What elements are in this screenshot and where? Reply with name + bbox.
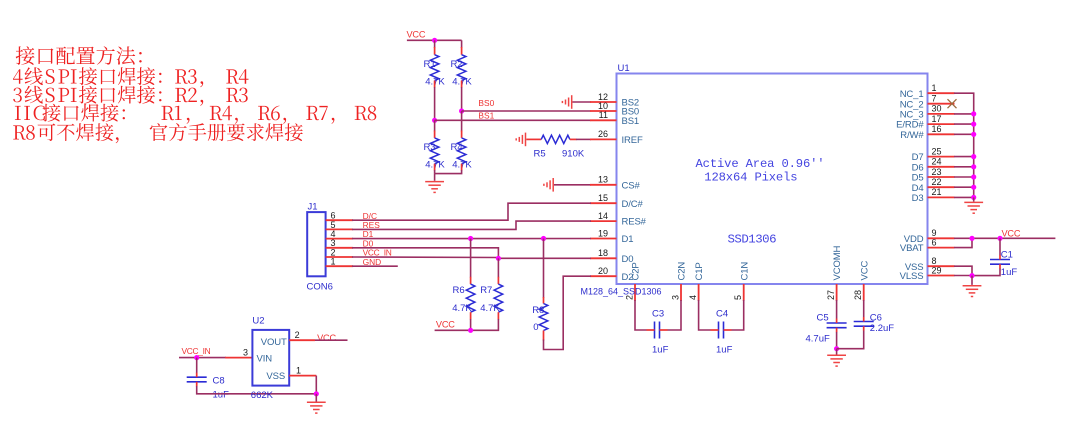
pin R3.1 [434, 131, 436, 138]
resistor R3 [430, 138, 439, 164]
U1 internal text SSD1306 [728, 233, 777, 247]
U1 pin 24 (D6) stub [928, 166, 955, 168]
net label VCC_IN (left) [182, 346, 211, 356]
no-connect X on U1 pin 7 [948, 99, 957, 108]
pin R2.2 [461, 81, 463, 88]
ground (VSS/VLSS) [963, 276, 982, 297]
wire U1.8 VSS down [954, 266, 972, 275]
junction D1/R6 [468, 236, 473, 241]
svg-text:20: 20 [598, 266, 608, 276]
svg-text:SSD1306: SSD1306 [728, 233, 777, 247]
U1 pin 9 (VDD) stub [928, 237, 955, 239]
U1 pin 5 (C1N) stub [743, 284, 745, 301]
wire R5 to pin 26 [576, 138, 591, 140]
U1 pin name NC_1 [900, 89, 924, 100]
U1 pin name RES# [622, 217, 647, 228]
U1 internal text Active Area 0.96'' [696, 157, 825, 171]
U1 pin 27 (VCOMH) stub [836, 284, 838, 301]
svg-text:24: 24 [932, 157, 942, 167]
J1 pin 6 number [331, 211, 336, 221]
junction bus/E/RD# [971, 122, 976, 127]
wire net VCC from U1.9 [954, 237, 1055, 239]
svg-text:15: 15 [598, 193, 608, 203]
svg-text:CS#: CS# [622, 180, 641, 191]
capacitor C8 value label 1uF [213, 390, 230, 401]
wire C1 bottom to gnd node [972, 269, 1000, 276]
wire net VCC_IN to U2.VIN [179, 357, 226, 359]
ground (R5 left) [516, 133, 525, 147]
svg-text:1: 1 [331, 257, 336, 267]
svg-text:1uF: 1uF [1001, 267, 1018, 278]
net label D0 [363, 238, 374, 248]
U1 pin 18 number [598, 248, 608, 258]
capacitor C5 ref label [817, 313, 829, 324]
svg-text:U2: U2 [252, 315, 264, 326]
wire pin NC_3 to bus [954, 113, 974, 115]
svg-text:2: 2 [295, 330, 300, 340]
annotation text line 4 IIC接口焊接：R1，R4，R6，R7，R8 [15, 104, 376, 124]
svg-text:7: 7 [932, 94, 937, 104]
U1 pin 8 (VSS) stub [928, 265, 955, 267]
U1 pin name D6 [912, 162, 924, 173]
capacitor C6 ref label [870, 313, 882, 324]
U1 pin name D7 [912, 152, 924, 163]
U1 pin name D2 [622, 272, 634, 283]
U1 pin 26 number [598, 129, 608, 139]
wire net GND from J1.1 [352, 265, 398, 267]
J1 pin 4 stub [326, 238, 354, 240]
wire D1 node to R8 [543, 239, 545, 298]
svg-text:17: 17 [932, 114, 942, 124]
J1 pin 5 number [331, 220, 336, 230]
U1 pin name BS1 [622, 116, 640, 127]
svg-text:26: 26 [598, 129, 608, 139]
wire C3 to U1.3 [668, 300, 682, 330]
svg-text:VCOMH: VCOMH [832, 245, 843, 280]
svg-text:Active Area 0.96'': Active Area 0.96'' [696, 157, 825, 171]
U1 pin name VCOMH [832, 245, 843, 280]
U1 pin 25 (D7) stub [928, 156, 955, 158]
svg-text:BS1: BS1 [622, 116, 640, 127]
wire node BS0 to R4 [461, 111, 463, 132]
U1 pin 14 (RES#) stub [590, 220, 617, 222]
U1 pin name R/W# [900, 130, 924, 141]
svg-text:CON6: CON6 [307, 281, 333, 292]
J1 pin 6 stub [326, 219, 354, 221]
pin R3.2 [434, 164, 436, 171]
connector J1 box [307, 212, 325, 276]
wire R6 to VCC rail [470, 319, 472, 330]
capacitor C4 value label 1uF [716, 344, 733, 355]
resistor R7 value label 4.7K [480, 303, 500, 314]
pin R8.2 [543, 331, 545, 341]
capacitor C6 [854, 317, 874, 331]
wire U1.4 to C4 [699, 300, 711, 330]
resistor R3 value label 4.7K [425, 160, 445, 171]
net label VCC_IN [363, 248, 392, 258]
J1 pin 2 stub [326, 256, 354, 258]
U1 pin name NC_3 [900, 110, 924, 121]
net label D1 [363, 229, 374, 239]
svg-text:D3: D3 [912, 193, 924, 204]
J1 part label CON6 [307, 281, 333, 292]
wire VCC to R1 [434, 40, 436, 48]
J1 reference designator [308, 201, 318, 212]
svg-text:4.7uF: 4.7uF [806, 334, 830, 345]
svg-text:18: 18 [598, 248, 608, 258]
U1 pin 26 (IREF) stub [590, 138, 617, 140]
resistor R5 [541, 135, 570, 143]
pin R5.1 [526, 138, 541, 140]
U1 pin 24 number [932, 157, 942, 167]
svg-text:16: 16 [932, 124, 942, 134]
junction VCC/C1 [997, 236, 1002, 241]
J1 pin 3 number [331, 238, 336, 248]
U2 pin name VSS [266, 371, 285, 382]
net label RES [363, 220, 381, 230]
svg-text:0: 0 [533, 322, 538, 333]
wire R3 to gnd rail [434, 170, 436, 174]
J1 pin 5 stub [326, 228, 354, 230]
svg-text:GND: GND [363, 257, 382, 267]
svg-text:C8: C8 [213, 375, 225, 386]
U1 pin 13 (CS#) stub [590, 184, 617, 186]
U1 pin 22 (D4) stub [928, 186, 955, 188]
ground (pin CS#) [544, 178, 553, 192]
U1 pin name VBAT [900, 243, 924, 254]
svg-text:R5: R5 [534, 149, 546, 160]
U1 pin name IREF [622, 135, 643, 146]
capacitor C3 [647, 322, 668, 339]
wire U1.28 to C6 [863, 300, 865, 317]
pin R4.1 [461, 131, 463, 138]
pin R8.1 [543, 297, 545, 304]
svg-text:R2: R2 [451, 59, 463, 70]
wire pin D7 to bus [954, 156, 974, 158]
wire C8 bottom to gnd rail [197, 386, 317, 394]
svg-text:R6: R6 [453, 285, 465, 296]
junction VCC_IN/C8 [194, 355, 199, 360]
svg-text:VSS: VSS [266, 371, 285, 382]
op-amp U1 box (SSD1306 module body) [617, 74, 928, 285]
svg-text:2.2uF: 2.2uF [870, 323, 894, 334]
svg-text:VCC: VCC [859, 261, 870, 281]
svg-text:VCC: VCC [317, 333, 336, 343]
wire net D/C from J1.6 to U1.15 [352, 203, 591, 220]
pin R4.2 [461, 164, 463, 171]
U2 pin name VOUT [261, 337, 287, 348]
U1 pin 7 (NC_2) stub [928, 103, 955, 105]
voltage regulator U2 box [252, 330, 289, 386]
capacitor C8 [187, 373, 207, 387]
U1 pin 21 number [932, 187, 942, 197]
svg-text:VBAT: VBAT [900, 243, 924, 254]
resistor R5 value label 910K [562, 149, 585, 160]
junction node BS1 [432, 118, 437, 123]
resistor R6 ref label R6 [453, 285, 465, 296]
wire C6 to gnd node [837, 331, 864, 349]
U2 pin 1 number [296, 365, 301, 375]
svg-text:1: 1 [296, 365, 301, 375]
resistor R7 [494, 284, 503, 312]
wire node BS1 to R3 [434, 120, 436, 131]
svg-text:28: 28 [853, 290, 863, 300]
net label D/C [363, 211, 377, 221]
U1 pin 2 (C2P) stub [634, 284, 636, 301]
U1 reference designator [618, 63, 630, 74]
svg-text:BS0: BS0 [478, 98, 494, 108]
U1 pin name E/RD# [896, 120, 924, 131]
junction node BS0 [459, 108, 464, 113]
pin R7.1 [497, 277, 499, 284]
wire C8 top [196, 358, 198, 374]
U1 pin name D5 [912, 173, 924, 184]
svg-text:C2N: C2N [677, 262, 688, 281]
junction bus/D6 [971, 164, 976, 169]
svg-text:VCC: VCC [1002, 229, 1021, 239]
wire D0 node to R7 [497, 258, 499, 277]
wire R7 to VCC rail [435, 319, 499, 330]
svg-text:5: 5 [733, 295, 743, 300]
U1 pin 13 number [598, 175, 608, 185]
U1 pin 6 (VBAT) stub [928, 247, 955, 249]
U1 pin 15 number [598, 193, 608, 203]
wire R8 to net D2 [544, 276, 592, 349]
svg-text:30: 30 [932, 104, 942, 114]
ground (C5/C6) [827, 349, 846, 366]
svg-text:M128_64_SSD1306: M128_64_SSD1306 [581, 287, 662, 297]
svg-text:29: 29 [932, 265, 942, 275]
net label BS1 [478, 111, 494, 121]
U1 pin 1 (NC_1) stub [928, 92, 955, 94]
pin R1.1 [434, 47, 436, 55]
resistor R4 [457, 138, 466, 164]
U1 pin 16 (R/W#) stub [928, 133, 955, 135]
pin R6.2 [470, 312, 472, 319]
junction bus/D4 [971, 185, 976, 190]
U1 pin 27 number [826, 290, 836, 300]
svg-text:J1: J1 [308, 201, 318, 212]
svg-text:R7: R7 [480, 285, 492, 296]
capacitor C5 value label 4.7uF [806, 334, 830, 345]
ground (below R3/R4) [425, 174, 444, 193]
svg-text:D/C#: D/C# [622, 199, 644, 210]
svg-text:BS1: BS1 [478, 111, 494, 121]
svg-text:1uF: 1uF [213, 390, 230, 401]
capacitor C4 ref label [716, 308, 728, 319]
svg-text:11: 11 [599, 110, 608, 120]
J1 pin 4 number [331, 229, 336, 239]
net label VCC (U2 output) [317, 333, 336, 343]
resistor R8 value label 0 [533, 322, 538, 333]
U1 pin name D0 [622, 254, 634, 265]
capacitor C3 ref label [652, 308, 664, 319]
capacitor C3 value label 1uF [652, 344, 669, 355]
pin U2.2 VOUT stub [289, 339, 315, 341]
U1 pin 20 number [598, 266, 608, 276]
wire net RES from J1.5 to U1.14 [352, 221, 591, 229]
junction VSS/gnd rail [314, 391, 319, 396]
resistor R2 value label 4.7K [452, 76, 472, 87]
U1 pin name C2N [677, 262, 688, 281]
wire C5 to gnd node [836, 332, 838, 349]
U1 pin 29 number [932, 265, 942, 275]
junction bus/NC_3 [971, 111, 976, 116]
capacitor C8 ref label [213, 375, 225, 386]
U1 pin name C1N [739, 262, 750, 281]
svg-text:VLSS: VLSS [900, 271, 924, 282]
svg-text:C1: C1 [1001, 249, 1013, 260]
U1 pin 2 number [625, 295, 635, 300]
svg-text:25: 25 [932, 146, 942, 156]
capacitor C1 [990, 255, 1010, 269]
junction VDD/VBAT [969, 236, 974, 241]
svg-text:IREF: IREF [622, 135, 643, 146]
svg-text:R8: R8 [532, 305, 544, 316]
U1 pin 4 (C1P) stub [698, 284, 700, 301]
capacitor C1 value label 1uF [1001, 267, 1018, 278]
U1 pin name VLSS [900, 271, 924, 282]
svg-text:R3: R3 [424, 142, 436, 153]
U2 pin 2 number [295, 330, 300, 340]
wire pin R/W# to bus [954, 133, 974, 135]
U1 pin 23 number [932, 167, 942, 177]
junction bus/R/W# [971, 132, 976, 137]
U1 pin 18 (D0) stub [590, 257, 617, 259]
resistor R4 value label 4.7K [452, 160, 472, 171]
U1 pin 19 number [598, 228, 608, 238]
resistor R6 value label 4.7K [452, 303, 472, 314]
U1 pin name C2P [631, 262, 642, 280]
svg-text:19: 19 [598, 228, 608, 238]
U1 pin 29 (VLSS) stub [928, 275, 955, 277]
resistor R8 [539, 304, 548, 331]
svg-text:R4: R4 [451, 142, 463, 153]
wire pin D6 to bus [954, 166, 974, 168]
U2 value label 662K [251, 390, 274, 401]
junction VSS/VLSS/C1 gnd node [969, 273, 974, 278]
resistor R7 ref label R7 [480, 285, 492, 296]
U1 pin name D/C# [622, 199, 644, 210]
svg-text:VOUT: VOUT [261, 337, 287, 348]
pin R2.1 [461, 47, 463, 55]
U1 part label M128_64_SSD1306 [581, 287, 662, 297]
wire VCC to R2 [461, 40, 463, 48]
wire NC/data bus vertical [954, 93, 974, 197]
wire R2 to node BS0 [461, 87, 463, 111]
svg-text:4.7K: 4.7K [480, 303, 500, 314]
U2 pin name VIN [257, 354, 273, 365]
U1 pin 9 number [932, 228, 937, 238]
wire net VCC_IN from J1.2 [352, 256, 497, 259]
ground (U2) [307, 394, 326, 413]
capacitor C5 [827, 319, 847, 333]
U1 pin 10 number [598, 101, 608, 111]
svg-text:VCC: VCC [407, 30, 426, 40]
net label VCC (right) [1002, 229, 1021, 239]
resistor R1 value label 4.7K [425, 76, 445, 87]
resistor R2 [457, 55, 466, 81]
J1 pin 2 number [331, 247, 336, 257]
U1 pin 10 (BS0) stub [590, 110, 617, 112]
U1 pin 21 (D3) stub [928, 196, 955, 198]
U1 pin 30 (NC_3) stub [928, 113, 955, 115]
wire net BS1 [435, 119, 591, 121]
svg-text:27: 27 [826, 290, 836, 300]
U1 pin name VSS [905, 262, 924, 273]
svg-text:VCC: VCC [436, 320, 455, 330]
svg-text:4: 4 [688, 295, 698, 300]
svg-text:3: 3 [243, 347, 248, 357]
pin U2.3 VIN stub [225, 357, 252, 359]
wire C1 top [999, 238, 1001, 255]
U1 pin 28 (VCC) stub [863, 284, 865, 301]
U1 pin name C1P [694, 262, 705, 280]
svg-text:R/W#: R/W# [900, 130, 924, 141]
U1 pin name D1 [622, 234, 634, 245]
wire U1.29 VLSS [954, 275, 972, 277]
pin R1.2 [434, 81, 436, 88]
resistor R3 ref label R3 [424, 142, 436, 153]
svg-text:14: 14 [598, 211, 608, 221]
annotation text line 3 3线SPI接口焊接：R2，R3 [13, 86, 248, 106]
U1 pin 30 number [932, 104, 942, 114]
U1 pin 28 number [853, 290, 863, 300]
U2 reference designator [252, 315, 264, 326]
U1 internal text 128x64 Pixels [704, 171, 797, 185]
U1 pin 4 number [688, 295, 698, 300]
U1 pin 6 number [932, 237, 937, 247]
wire U2 VOUT to VCC label [315, 339, 348, 341]
U1 pin name NC_2 [900, 99, 924, 110]
svg-text:128x64 Pixels: 128x64 Pixels [704, 171, 797, 185]
net label BS0 [478, 98, 494, 108]
U1 pin 25 number [932, 146, 942, 156]
net label GND [363, 257, 382, 267]
U1 pin 20 (D2) stub [590, 275, 617, 277]
resistor R1 ref label R1 [424, 59, 436, 70]
svg-text:U1: U1 [618, 63, 630, 74]
junction C5/C6 gnd node [834, 346, 839, 351]
U1 pin 22 number [932, 177, 942, 187]
wire net BS0 [462, 110, 591, 112]
wire R1 to node BS1 [434, 87, 436, 120]
annotation text line 5 R8可不焊接，官方手册要求焊接 [13, 123, 303, 143]
U1 pin 12 number [598, 92, 608, 102]
capacitor C1 ref label [1001, 249, 1013, 260]
U1 pin 8 number [932, 256, 937, 266]
U1 pin 5 number [733, 295, 743, 300]
wire R4 to gnd rail [435, 170, 462, 174]
junction D1/R8 [541, 236, 546, 241]
pin U2.1 VSS stub [289, 375, 316, 377]
junction VCC/R1 [432, 38, 437, 43]
svg-text:VCC_IN: VCC_IN [182, 346, 211, 356]
svg-text:C1N: C1N [739, 262, 750, 281]
wire D1 node to R6 [470, 239, 472, 278]
wire pin D4 to bus [954, 186, 974, 188]
pin R7.2 [497, 312, 499, 319]
U1 pin 7 number [932, 94, 937, 104]
net label VCC (top) [407, 30, 426, 40]
U1 pin 17 (E/RD#) stub [928, 123, 955, 125]
pin R6.1 [470, 277, 472, 284]
svg-text:RES#: RES# [622, 217, 647, 228]
svg-text:C2P: C2P [631, 262, 642, 280]
J1 pin 3 stub [326, 247, 354, 249]
wire U2 VSS down to gnd rail [315, 376, 317, 394]
U1 pin 3 number [671, 295, 681, 300]
